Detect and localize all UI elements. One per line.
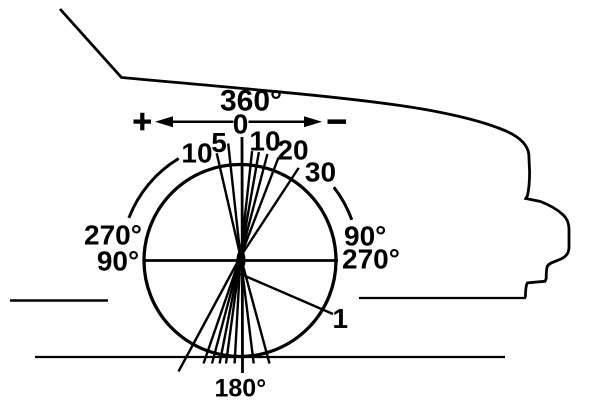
ground line <box>35 356 505 358</box>
bottom fan <box>179 257 270 372</box>
minus sign <box>328 119 347 124</box>
wheel circle <box>144 165 336 357</box>
svg-text:10: 10 <box>249 126 280 157</box>
right arrow <box>249 120 306 123</box>
svg-text:1: 1 <box>333 303 349 334</box>
svg-text:360°: 360° <box>220 85 282 118</box>
svg-text:10: 10 <box>181 138 212 169</box>
car fender outline <box>60 9 569 298</box>
svg-text:30: 30 <box>305 157 336 188</box>
horizontal diameter <box>144 259 338 262</box>
outer arc left <box>129 159 179 218</box>
plus sign <box>134 120 152 124</box>
left body line <box>10 299 108 302</box>
right body line <box>359 297 526 299</box>
center hub blob <box>237 250 246 270</box>
outer arc right <box>334 187 352 220</box>
left arrow <box>168 120 234 123</box>
svg-text:0: 0 <box>233 109 249 140</box>
svg-text:90°: 90° <box>97 246 139 277</box>
top fan <box>217 144 299 257</box>
vertical axis line <box>241 137 244 373</box>
svg-text:270°: 270° <box>342 244 400 275</box>
leader line 1 <box>241 274 334 314</box>
svg-text:5: 5 <box>211 127 227 158</box>
svg-text:180°: 180° <box>215 375 267 402</box>
svg-text:20: 20 <box>277 135 308 166</box>
